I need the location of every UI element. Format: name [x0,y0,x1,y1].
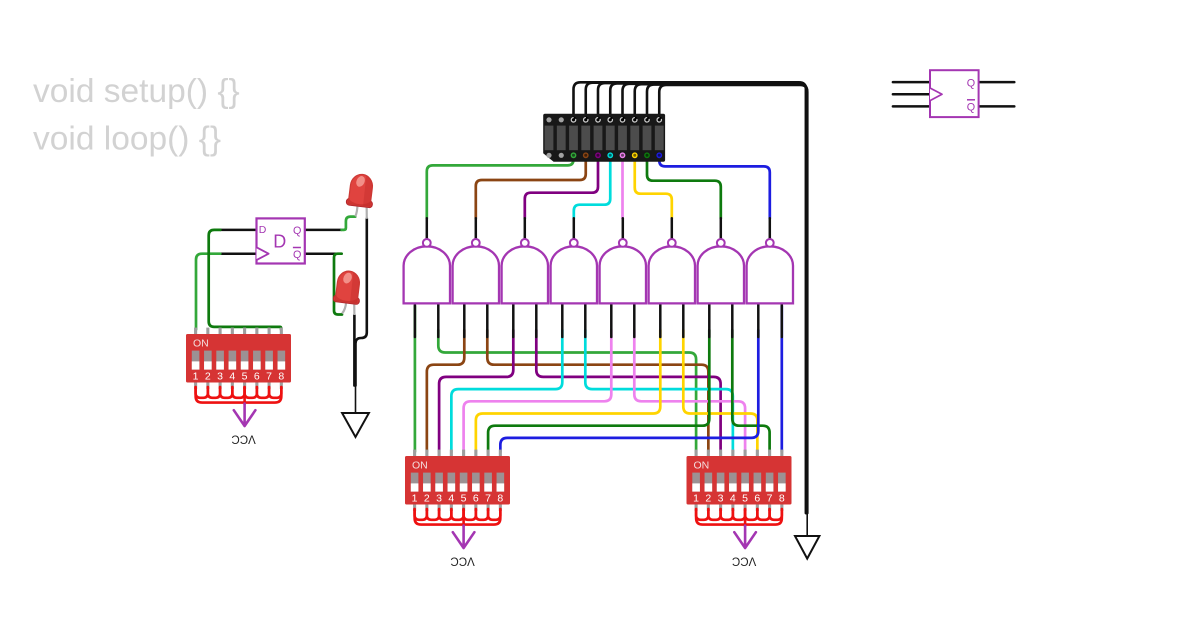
wire gate U4 input A to SW2 pin 4 [451,330,562,452]
svg-text:4: 4 [448,492,454,504]
wire header pin 8 to gate U6 output [635,150,672,218]
svg-text:2: 2 [424,492,430,504]
wire header pin 9 to gate U7 output [647,150,721,218]
VCC symbol 3 [734,526,756,549]
wire LED2 cathode to GND1 [353,315,356,386]
VCC symbol 1 [234,404,256,427]
wire gate U3 input A to SW2 pin 3 [439,330,513,452]
svg-text:VCC: VCC [732,555,756,567]
wire gate U5 input B to SW3 pin 5 [634,330,745,452]
IC header J1 (10-pin) [543,114,665,162]
svg-text:VCC: VCC [450,555,474,567]
wire gate U5 input A to SW2 pin 5 [464,330,612,452]
LED1 legs [355,203,357,216]
wire gate U8 input B to SW3 pin 8 [780,306,783,452]
wire header top pin 10 to GND bus [659,85,807,513]
wire gate U6 input A to SW2 pin 6 [476,330,660,452]
svg-text:1: 1 [193,370,199,382]
wire header pin 7 to gate U5 output [621,150,624,218]
ground GND1 [355,386,357,414]
wire header top pin 4 to GND bus [586,83,806,513]
wire U9 Q to LED1 anode [342,217,356,230]
wire gate U4 input B to SW3 pin 4 [585,330,733,452]
LED2 legs [342,302,346,314]
svg-text:2: 2 [205,370,211,382]
LED led2 (red) [333,270,363,305]
svg-text:VCC: VCC [231,433,255,445]
wire gate U2 input A to SW2 pin 2 [427,330,464,452]
wire gate U6 input B to SW3 pin 6 [683,330,757,452]
svg-text:7: 7 [767,492,773,504]
D flip-flop U10 [893,82,1014,106]
wire header pin 4 to gate U2 output [476,150,586,218]
DIP switch SW1 [194,328,197,335]
svg-text:1: 1 [412,492,418,504]
svg-text:Q: Q [967,101,975,113]
svg-text:3: 3 [718,492,724,504]
svg-text:6: 6 [254,370,260,382]
LED led1 (red) [346,173,376,208]
NAND gate U2 [475,218,478,239]
svg-text:7: 7 [485,492,491,504]
svg-text:5: 5 [461,492,467,504]
wire header top pin 5 to GND bus [598,83,806,513]
wire gate U8 input A to SW2 pin 8 [500,330,758,452]
wire header top pin 6 to GND bus [610,83,806,513]
svg-text:ON: ON [694,459,710,471]
wire header top pin 8 to GND bus [635,84,807,513]
svg-text:ON: ON [412,459,428,471]
wire header top pin 9 to GND bus [647,85,807,513]
svg-text:Q: Q [293,225,301,237]
svg-text:8: 8 [278,370,284,382]
svg-text:4: 4 [229,370,235,382]
NAND gate U7 [720,218,723,239]
wire U9 D to SW1 pin 8 [209,230,281,330]
DIP switch SW2 [413,450,416,457]
svg-text:void loop() {}: void loop() {} [33,121,221,158]
D flip-flop U9 [220,230,341,254]
svg-text:Q: Q [293,249,301,261]
VCC symbol 2 [453,526,475,549]
svg-text:ON: ON [193,337,209,349]
wires SW2 to VCC (red loops) [415,509,427,520]
wire header top pin 3 to GND bus [574,82,806,513]
NAND gate U1 [426,218,429,239]
svg-text:D: D [259,224,267,236]
svg-text:3: 3 [436,492,442,504]
wire LED1 cathode to GND1 [356,219,367,386]
wire gate U1 input B to SW3 pin 1 [438,330,696,452]
wires SW1 to VCC (red loops) [196,387,208,398]
svg-text:void setup() {}: void setup() {} [33,73,240,110]
wire header top pin 7 to GND bus [623,84,807,513]
svg-text:2: 2 [705,492,711,504]
wires SW3 to VCC (red loops) [696,509,708,520]
svg-text:8: 8 [779,492,785,504]
NAND gate U6 [671,218,674,239]
wire header pin 3 to gate U1 output [427,150,574,218]
NAND gate U8 [769,218,772,239]
svg-text:6: 6 [754,492,760,504]
svg-text:6: 6 [473,492,479,504]
svg-text:7: 7 [266,370,272,382]
svg-text:Q: Q [967,77,975,89]
wire gate U3 input B to SW3 pin 3 [536,330,720,452]
ground GND2 [806,513,808,536]
svg-text:4: 4 [730,492,736,504]
DIP switch SW3 [695,450,698,457]
svg-text:5: 5 [742,492,748,504]
wire gate U2 input B to SW3 pin 2 [487,330,708,452]
wire gate U1 input A to SW2 pin 1 [414,306,417,452]
svg-text:8: 8 [497,492,503,504]
wire gate U7 input A to SW2 pin 7 [488,330,709,452]
svg-text:D: D [273,231,286,251]
wire gate U7 input B to SW3 pin 7 [732,330,769,452]
wire U9 Qbar to LED2 anode [334,254,342,315]
svg-text:3: 3 [217,370,223,382]
svg-text:5: 5 [242,370,248,382]
wire header pin 6 to gate U4 output [574,150,610,218]
NAND gate U5 [622,218,625,239]
wire U9 CLK to SW1 pin 1 [196,254,220,330]
svg-text:1: 1 [693,492,699,504]
wire header pin 10 to gate U8 output [659,150,770,218]
NAND gate U3 [524,218,527,239]
NAND gate U4 [573,218,576,239]
wire header pin 5 to gate U3 output [525,150,598,218]
